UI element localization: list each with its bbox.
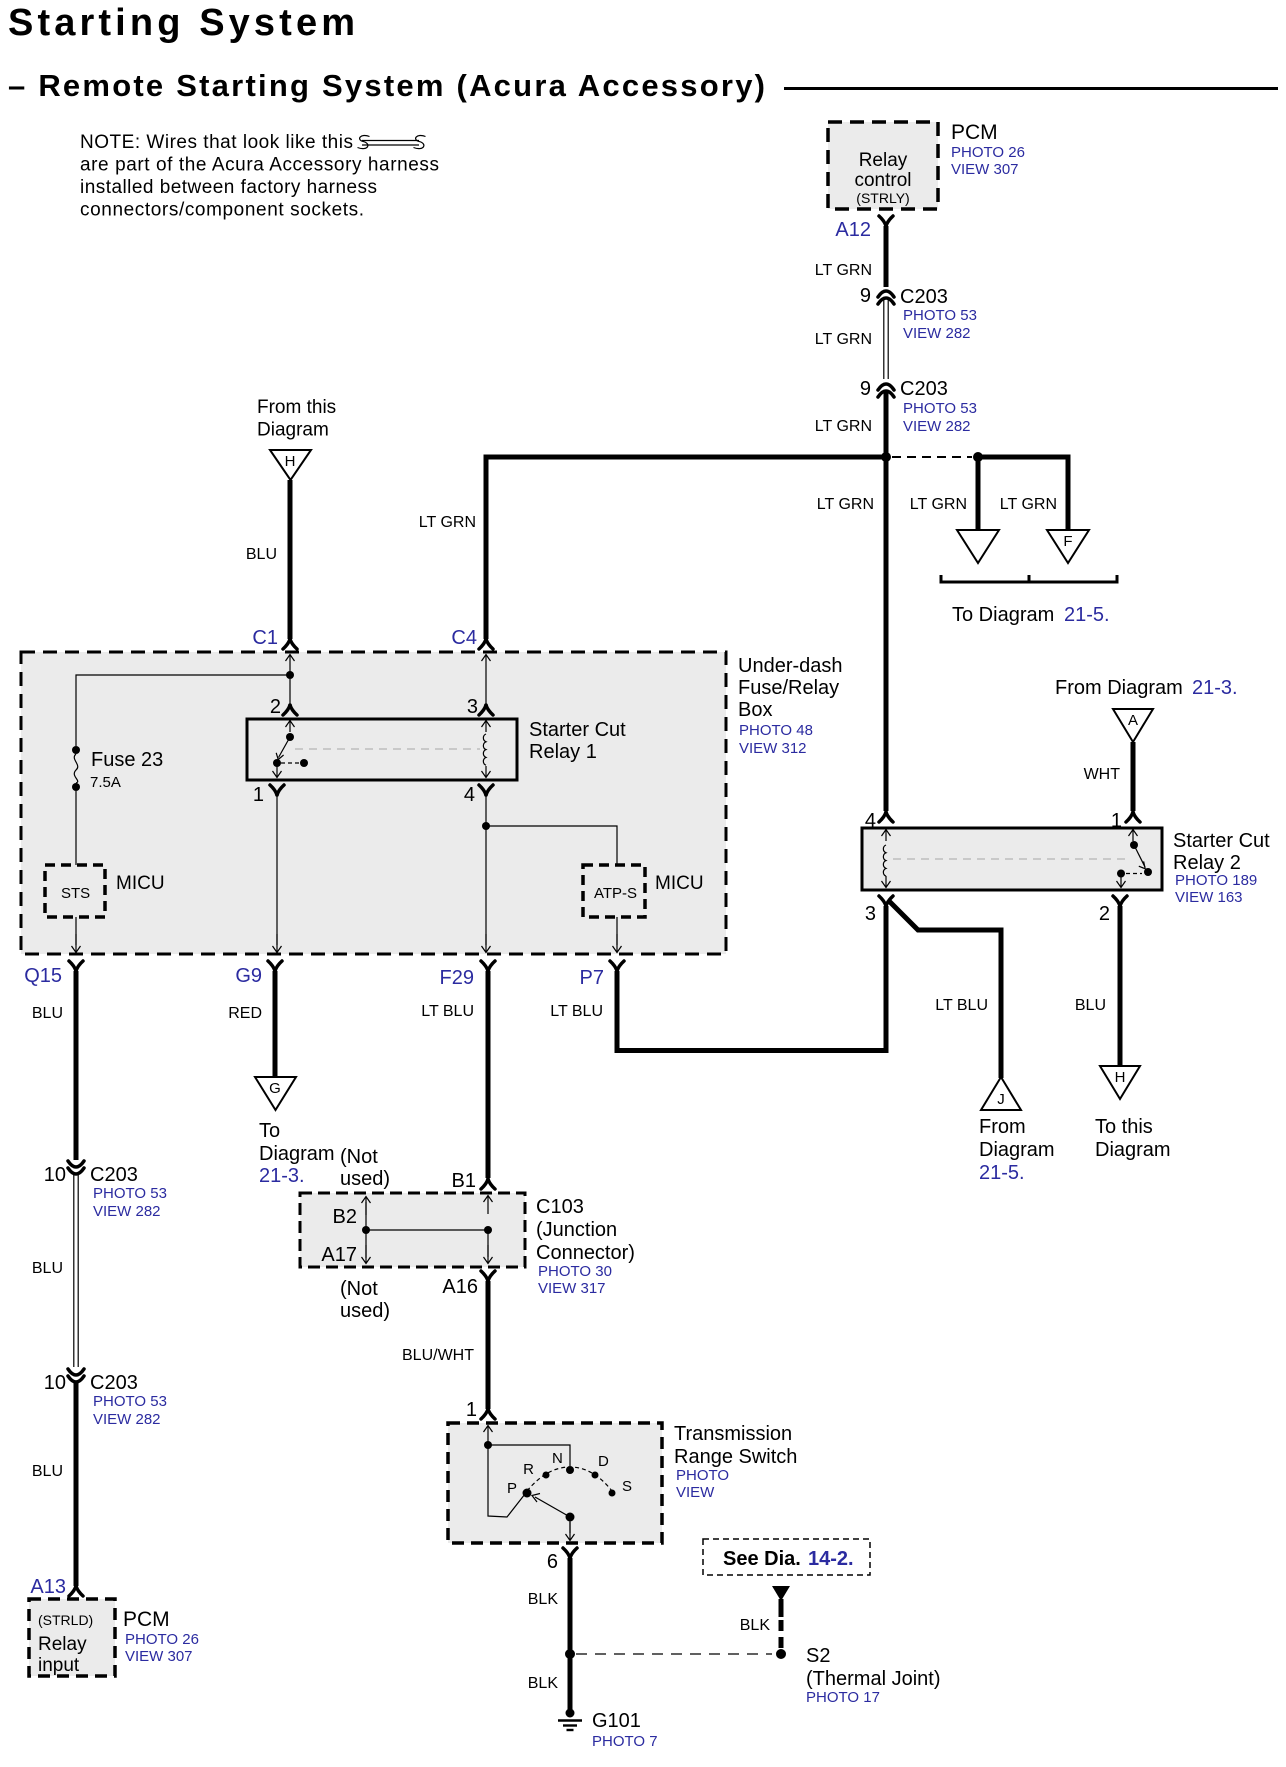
svg-text:Transmission: Transmission bbox=[674, 1423, 792, 1445]
arrow STS to Q15 bbox=[75, 917, 77, 945]
TRS pin 6 connector bbox=[563, 1548, 577, 1558]
svg-text:VIEW 307: VIEW 307 bbox=[951, 161, 1019, 178]
svg-text:(Not: (Not bbox=[340, 1146, 378, 1168]
svg-text:PCM: PCM bbox=[951, 121, 998, 144]
svg-text:To: To bbox=[259, 1120, 280, 1142]
relay 1 coil bbox=[482, 721, 491, 778]
svg-text:P: P bbox=[507, 1480, 517, 1497]
dashed wire splice to S2 bbox=[576, 1653, 772, 1655]
svg-text:Box: Box bbox=[738, 699, 772, 721]
svg-text:Relay 2: Relay 2 bbox=[1173, 852, 1241, 874]
wire junction down to relay 2 pin 4, LT GRN bbox=[884, 457, 889, 811]
svg-text:MICU: MICU bbox=[116, 873, 165, 894]
svg-text:LT GRN: LT GRN bbox=[817, 496, 874, 513]
svg-text:BLU: BLU bbox=[32, 1005, 63, 1022]
A16 exit arrow bbox=[487, 1230, 489, 1257]
svg-text:R: R bbox=[523, 1461, 534, 1478]
wire P7 to relay 2 pin 3, LT BLU bbox=[617, 971, 889, 1051]
svg-text:Starter Cut: Starter Cut bbox=[1173, 830, 1270, 852]
pin C4 connector bbox=[479, 639, 493, 649]
svg-text:C4: C4 bbox=[451, 627, 477, 649]
svg-text:installed between factory harn: installed between factory harness bbox=[80, 177, 377, 198]
svg-text:BLU: BLU bbox=[1075, 997, 1106, 1014]
diagram arrow F bbox=[1047, 530, 1089, 563]
starter cut relay 2 (K2) bbox=[862, 828, 1162, 890]
svg-text:C103: C103 bbox=[536, 1196, 584, 1218]
accessory-harness wire between C203 connectors, BLU bbox=[73, 1174, 75, 1367]
relay 1 pin 3 connector bbox=[479, 705, 493, 715]
svg-text:C1: C1 bbox=[252, 627, 278, 649]
svg-text:2: 2 bbox=[270, 696, 281, 718]
wire splice to G101, BLK bbox=[568, 1654, 573, 1711]
wire see-dia to S2, BLK bbox=[779, 1599, 784, 1617]
wire A16 to transmission range switch, BLU/WHT bbox=[486, 1281, 491, 1409]
pin F29 connector bbox=[481, 961, 495, 971]
diagram arrow H (incoming) bbox=[270, 450, 311, 480]
svg-text:Relay 1: Relay 1 bbox=[529, 741, 597, 763]
svg-text:LT BLU: LT BLU bbox=[935, 997, 988, 1014]
svg-text:3: 3 bbox=[467, 696, 478, 718]
svg-text:(STRLY): (STRLY) bbox=[856, 190, 909, 206]
svg-text:BLK: BLK bbox=[528, 1591, 559, 1608]
svg-text:VIEW 163: VIEW 163 bbox=[1175, 889, 1243, 906]
svg-text:A12: A12 bbox=[835, 219, 871, 241]
svg-text:PHOTO 30: PHOTO 30 bbox=[538, 1263, 612, 1280]
node B1 bbox=[484, 1226, 492, 1234]
svg-text:Fuse/Relay: Fuse/Relay bbox=[738, 677, 839, 699]
relay 2 pin 1 connector bbox=[1126, 812, 1140, 822]
svg-text:Range Switch: Range Switch bbox=[674, 1446, 797, 1468]
svg-text:WHT: WHT bbox=[1084, 766, 1121, 783]
svg-text:C203: C203 bbox=[90, 1372, 138, 1394]
B1 entry arrow bbox=[484, 1196, 493, 1215]
MICU ATP-S block bbox=[583, 865, 645, 917]
svg-text:Diagram: Diagram bbox=[1095, 1139, 1171, 1161]
svg-text:6: 6 bbox=[547, 1551, 558, 1573]
wire second splice down to diagram arrow, LT GRN bbox=[976, 457, 981, 529]
wire H to C1, BLU bbox=[288, 480, 293, 639]
fuse 23 (7.5A) bbox=[72, 746, 163, 791]
wire fuse to STS bbox=[75, 791, 77, 865]
relay 2 pin 2 connector bbox=[1113, 896, 1127, 906]
relay 2 switch bbox=[1117, 830, 1153, 888]
svg-text:A13: A13 bbox=[30, 1576, 66, 1598]
wire C4 to relay pin 3 bbox=[485, 673, 487, 704]
svg-text:(Thermal Joint): (Thermal Joint) bbox=[806, 1668, 940, 1690]
svg-text:BLU: BLU bbox=[32, 1463, 63, 1480]
svg-text:A: A bbox=[1128, 712, 1138, 729]
B2/A17 stub arrows bbox=[365, 1202, 367, 1258]
svg-text:10: 10 bbox=[44, 1372, 66, 1394]
dashed wire between junction nodes bbox=[892, 456, 972, 458]
svg-text:To this: To this bbox=[1095, 1116, 1153, 1138]
pin B1 connector bbox=[481, 1179, 495, 1189]
svg-text:C203: C203 bbox=[900, 286, 948, 308]
diagram arrow (unlabeled) bbox=[957, 530, 999, 563]
svg-text:G101: G101 bbox=[592, 1710, 641, 1732]
svg-text:Relay: Relay bbox=[38, 1634, 87, 1655]
svg-text:Fuse 23: Fuse 23 bbox=[91, 749, 163, 771]
svg-text:VIEW 307: VIEW 307 bbox=[125, 1648, 193, 1665]
bracket to diagram 21-5 bbox=[941, 575, 1117, 582]
pin C1 connector bbox=[283, 639, 297, 649]
svg-text:Diagram: Diagram bbox=[259, 1143, 335, 1165]
svg-text:P7: P7 bbox=[580, 967, 604, 989]
svg-text:Diagram: Diagram bbox=[979, 1139, 1055, 1161]
svg-text:F29: F29 bbox=[440, 967, 474, 989]
svg-text:J: J bbox=[997, 1091, 1005, 1108]
svg-text:S: S bbox=[622, 1478, 632, 1495]
svg-text:PHOTO 189: PHOTO 189 bbox=[1175, 872, 1257, 889]
node on pin 4 wire bbox=[482, 822, 490, 830]
svg-text:From Diagram: From Diagram bbox=[1055, 677, 1183, 699]
svg-text:control: control bbox=[854, 170, 911, 191]
svg-text:LT GRN: LT GRN bbox=[815, 262, 872, 279]
C4 entry arrow bbox=[482, 655, 491, 674]
svg-text:BLU/WHT: BLU/WHT bbox=[402, 1347, 474, 1364]
svg-text:3: 3 bbox=[865, 903, 876, 925]
C1 entry arrow bbox=[286, 655, 295, 674]
svg-text:PHOTO 26: PHOTO 26 bbox=[951, 144, 1025, 161]
svg-text:N: N bbox=[552, 1450, 563, 1467]
node: splice junction under C203 bbox=[881, 452, 891, 462]
relay 2 coil-switch link bbox=[893, 858, 1128, 860]
wire Q15 to C203, BLU bbox=[74, 971, 79, 1160]
svg-text:PHOTO 17: PHOTO 17 bbox=[806, 1689, 880, 1706]
svg-text:9: 9 bbox=[860, 378, 871, 400]
arrowhead from see dia. box bbox=[772, 1586, 790, 1601]
diagram arrow G bbox=[255, 1077, 296, 1110]
svg-text:used): used) bbox=[340, 1300, 390, 1322]
svg-text:LT GRN: LT GRN bbox=[1000, 496, 1057, 513]
svg-text:MICU: MICU bbox=[655, 873, 704, 894]
relay 1 pin 4 connector bbox=[479, 785, 493, 795]
svg-text:BLK: BLK bbox=[528, 1675, 559, 1692]
C103 junction connector box bbox=[300, 1193, 525, 1267]
wire relay 2 pin 3 down to P7 line bbox=[884, 906, 889, 1053]
svg-text:B2: B2 bbox=[333, 1206, 357, 1228]
svg-text:Starting System: Starting System bbox=[8, 2, 355, 44]
relay 1 pin 2 connector bbox=[283, 705, 297, 715]
pin G9 connector bbox=[268, 961, 282, 971]
svg-text:PHOTO 7: PHOTO 7 bbox=[592, 1733, 658, 1750]
svg-text:BLU: BLU bbox=[246, 546, 277, 563]
TRS contacts P R N D S bbox=[507, 1450, 632, 1498]
node: second splice bbox=[973, 452, 983, 462]
S2 thermal joint bbox=[776, 1649, 786, 1659]
svg-text:LT BLU: LT BLU bbox=[421, 1003, 474, 1020]
starter cut relay 1 (K1) bbox=[247, 719, 517, 780]
svg-text:VIEW 282: VIEW 282 bbox=[93, 1203, 161, 1220]
svg-text:connectors/component sockets.: connectors/component sockets. bbox=[80, 200, 364, 221]
relay 1 switch bbox=[273, 721, 309, 778]
PCM relay-input box bbox=[29, 1599, 115, 1676]
accessory-harness wire between C203 connectors, LT GRN bbox=[883, 300, 885, 379]
wire to fuse 23 bbox=[76, 675, 290, 746]
svg-text:VIEW 282: VIEW 282 bbox=[903, 325, 971, 342]
svg-text:PHOTO 53: PHOTO 53 bbox=[903, 307, 977, 324]
TRS pin 1 connector bbox=[481, 1409, 495, 1419]
diagram arrow H (outgoing) bbox=[1100, 1066, 1140, 1099]
connector C203 pin 9 (lower) bbox=[878, 384, 894, 390]
svg-text:– Remote Starting System (Acur: – Remote Starting System (Acura Accessor… bbox=[8, 68, 765, 103]
svg-text:PHOTO 53: PHOTO 53 bbox=[93, 1185, 167, 1202]
see dia. 14-2 box bbox=[703, 1539, 870, 1575]
wire relay pin 1 to G9 bbox=[276, 795, 278, 945]
wire junction to C4 (left branch), LT GRN bbox=[486, 457, 884, 639]
wire A12 to C203, LT GRN bbox=[884, 226, 889, 287]
ground G101 bbox=[558, 1709, 582, 1731]
svg-text:1: 1 bbox=[466, 1399, 477, 1421]
svg-text:(Junction: (Junction bbox=[536, 1219, 617, 1241]
PCM relay-control box (U: PCM) bbox=[828, 122, 938, 209]
svg-text:PHOTO 48: PHOTO 48 bbox=[739, 722, 813, 739]
svg-text:VIEW: VIEW bbox=[676, 1484, 715, 1501]
svg-text:used): used) bbox=[340, 1168, 390, 1190]
pin Q15 connector bbox=[69, 961, 83, 971]
pin A13 connector bbox=[69, 1586, 83, 1596]
svg-text:C203: C203 bbox=[900, 378, 948, 400]
svg-text:Connector): Connector) bbox=[536, 1242, 635, 1264]
TRS node at pin 1 bbox=[484, 1441, 492, 1449]
svg-text:LT GRN: LT GRN bbox=[419, 514, 476, 531]
svg-text:Relay: Relay bbox=[859, 150, 908, 171]
wire node to ATP-S bbox=[486, 826, 617, 864]
wire second splice to F arrow, LT GRN bbox=[981, 457, 1068, 529]
connector C203 pin 10 (upper) bbox=[68, 1161, 84, 1167]
svg-text:PHOTO 26: PHOTO 26 bbox=[125, 1631, 199, 1648]
relay 2 coil bbox=[882, 830, 891, 888]
TRS selector arm bbox=[532, 1494, 575, 1541]
svg-text:21-3.: 21-3. bbox=[259, 1165, 305, 1187]
svg-text:(Not: (Not bbox=[340, 1278, 378, 1300]
relay 2 pin 3 connector bbox=[879, 896, 893, 906]
svg-text:See Dia.: See Dia. bbox=[723, 1548, 801, 1570]
svg-text:NOTE: Wires that look like thi: NOTE: Wires that look like this bbox=[80, 132, 353, 153]
svg-text:PCM: PCM bbox=[123, 1608, 170, 1631]
wire relay pin 4 to F29 bbox=[485, 795, 487, 945]
pin A16 connector bbox=[481, 1271, 495, 1281]
wire C203 to A13, BLU bbox=[74, 1381, 79, 1586]
svg-text:14-2.: 14-2. bbox=[808, 1548, 854, 1570]
svg-text:S2: S2 bbox=[806, 1645, 830, 1667]
svg-text:Starter Cut: Starter Cut bbox=[529, 719, 626, 741]
svg-text:C203: C203 bbox=[90, 1164, 138, 1186]
node B2/A17 bbox=[362, 1226, 370, 1234]
svg-text:ATP-S: ATP-S bbox=[594, 885, 637, 902]
wire relay 2 pin 2 to H arrow, BLU bbox=[1118, 906, 1123, 1066]
svg-text:are part of the Acura Accessor: are part of the Acura Accessory harness bbox=[80, 155, 439, 176]
accessory harness wire symbol bbox=[358, 135, 426, 148]
MICU STS block bbox=[45, 865, 105, 917]
svg-text:A16: A16 bbox=[442, 1276, 478, 1298]
header rule bbox=[784, 87, 1278, 90]
svg-text:BLK: BLK bbox=[740, 1617, 771, 1634]
pin A12 connector bbox=[879, 216, 893, 226]
pin P7 connector bbox=[610, 961, 624, 971]
svg-text:VIEW 312: VIEW 312 bbox=[739, 740, 807, 757]
svg-text:STS: STS bbox=[61, 885, 90, 902]
svg-text:LT GRN: LT GRN bbox=[910, 496, 967, 513]
svg-text:21-5.: 21-5. bbox=[1064, 604, 1110, 626]
svg-text:21-3.: 21-3. bbox=[1192, 677, 1238, 699]
svg-text:(STRLD): (STRLD) bbox=[38, 1612, 93, 1628]
wire C1 node to relay pin 2 bbox=[289, 679, 291, 704]
connector C203 pin 9 (upper) bbox=[878, 291, 894, 297]
relay 2 pin 4 connector bbox=[879, 812, 893, 822]
TRS wire to N contact bbox=[488, 1445, 570, 1466]
svg-text:PHOTO: PHOTO bbox=[676, 1467, 729, 1484]
node inside box at C1 bbox=[286, 671, 294, 679]
svg-text:VIEW 317: VIEW 317 bbox=[538, 1280, 606, 1297]
svg-text:VIEW 282: VIEW 282 bbox=[93, 1411, 161, 1428]
wire G9 to arrow G, RED bbox=[273, 971, 278, 1077]
svg-text:2: 2 bbox=[1099, 903, 1110, 925]
svg-text:G: G bbox=[269, 1080, 281, 1097]
connector C203 pin 10 (lower) bbox=[68, 1369, 84, 1375]
svg-text:G9: G9 bbox=[235, 965, 262, 987]
diagram arrow J (incoming) bbox=[981, 1077, 1021, 1110]
wire A to relay 2 pin 1, WHT bbox=[1131, 742, 1136, 811]
svg-text:D: D bbox=[598, 1453, 609, 1470]
wire pin 6 to splice, BLK bbox=[568, 1558, 573, 1650]
svg-text:Q15: Q15 bbox=[24, 965, 62, 987]
svg-text:RED: RED bbox=[228, 1005, 262, 1022]
svg-text:PHOTO 53: PHOTO 53 bbox=[93, 1393, 167, 1410]
svg-text:Diagram: Diagram bbox=[257, 420, 329, 441]
svg-text:21-5.: 21-5. bbox=[979, 1162, 1025, 1184]
svg-text:BLU: BLU bbox=[32, 1260, 63, 1277]
svg-text:LT GRN: LT GRN bbox=[815, 331, 872, 348]
junction bus wire bbox=[366, 1229, 488, 1231]
svg-text:LT GRN: LT GRN bbox=[815, 418, 872, 435]
wire relay 2 pin 3 to J arrow, LT BLU bbox=[888, 900, 1001, 1078]
svg-text:A17: A17 bbox=[321, 1244, 357, 1266]
svg-text:1: 1 bbox=[253, 784, 264, 806]
TRS entry arrow bbox=[484, 1426, 493, 1445]
node splice S2/G101 bbox=[565, 1649, 575, 1659]
svg-text:To Diagram: To Diagram bbox=[952, 604, 1054, 626]
wire C203 to junction, LT GRN bbox=[884, 392, 889, 457]
svg-text:Under-dash: Under-dash bbox=[738, 655, 843, 677]
svg-text:LT BLU: LT BLU bbox=[550, 1003, 603, 1020]
arrow ATP-S to P7 bbox=[616, 917, 618, 945]
svg-text:H: H bbox=[285, 453, 296, 470]
svg-text:B1: B1 bbox=[452, 1170, 476, 1192]
svg-text:4: 4 bbox=[464, 784, 475, 806]
svg-text:7.5A: 7.5A bbox=[90, 774, 121, 791]
svg-text:10: 10 bbox=[44, 1164, 66, 1186]
svg-text:H: H bbox=[1115, 1069, 1126, 1086]
transmission range switch box (S) bbox=[448, 1423, 662, 1543]
wire F29 to B1, LT BLU bbox=[486, 971, 491, 1178]
relay 1 pin 1 connector bbox=[270, 785, 284, 795]
under-dash fuse/relay box bbox=[21, 652, 726, 954]
diagram arrow A (incoming) bbox=[1113, 709, 1153, 742]
svg-text:input: input bbox=[38, 1655, 80, 1676]
svg-text:From this: From this bbox=[257, 397, 336, 418]
svg-text:9: 9 bbox=[860, 285, 871, 307]
TRS wire to P contact bbox=[488, 1445, 525, 1517]
svg-text:VIEW 282: VIEW 282 bbox=[903, 418, 971, 435]
relay 1 coil-switch link bbox=[295, 748, 480, 750]
svg-text:PHOTO 53: PHOTO 53 bbox=[903, 400, 977, 417]
svg-text:From: From bbox=[979, 1116, 1026, 1138]
svg-text:F: F bbox=[1063, 533, 1072, 550]
